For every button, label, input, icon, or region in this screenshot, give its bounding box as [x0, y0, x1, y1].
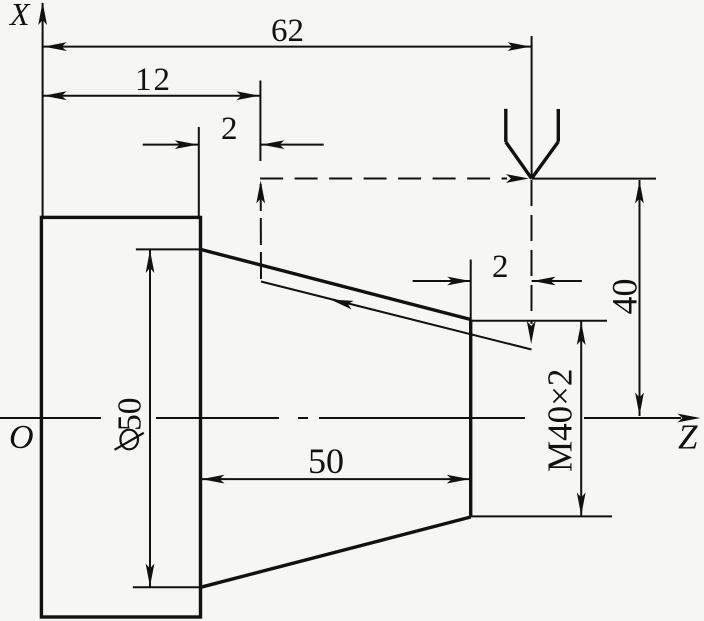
dimension phi50 line — [149, 250, 151, 587]
50 right arrow (points right) — [447, 475, 470, 484]
svg-text:2: 2 — [492, 249, 509, 285]
tool right vertical — [557, 109, 560, 142]
thread path thin slant line — [261, 282, 532, 350]
thread path arrow (points up-left along line) — [329, 295, 353, 309]
left 2 dim right arrow (points left) — [261, 140, 284, 149]
40 bottom arrow (down) — [635, 393, 644, 416]
svg-text:2: 2 — [221, 111, 238, 147]
phi symbol circle of phi50 — [120, 430, 138, 450]
Z axis arrow (right) — [678, 414, 701, 423]
12 right arrow — [236, 91, 259, 100]
taper bottom edge — [201, 517, 471, 587]
centerline segment 3 — [319, 417, 525, 419]
dimension M40x2 line — [580, 322, 582, 517]
62 right arrow — [508, 42, 531, 51]
dimension 12 line — [43, 95, 261, 97]
svg-text:40: 40 — [605, 279, 645, 315]
extension line x=260 for dims 12 and 2 — [259, 81, 261, 162]
small end face — [469, 320, 472, 518]
12 left arrow — [44, 91, 67, 100]
rapid path right arrow at tool tip — [506, 174, 529, 183]
50 left arrow (points left) — [202, 475, 225, 484]
tool right slant — [532, 142, 559, 179]
extension line x=198.8 for left dim 2 — [198, 127, 200, 216]
left 2 dim left arrow (points right) — [175, 140, 198, 149]
workpiece and tool: thick lines — [41, 109, 558, 617]
phi50 top extension line — [136, 248, 201, 250]
taper top edge — [201, 249, 471, 319]
rapid path up arrow at x=260.7 — [256, 181, 265, 204]
M40 bottom arrow (down) — [577, 493, 586, 516]
right 2 dim right arrow (points left) — [533, 277, 556, 286]
dimension 2 (right) line left segment — [413, 280, 471, 282]
40 top arrow (up) — [635, 181, 644, 204]
svg-text:12: 12 — [135, 62, 172, 98]
phi50 bottom arrow (down) — [146, 564, 155, 587]
dimension 2 (right) line right segment — [532, 280, 582, 282]
M40 bottom extension line — [471, 515, 612, 517]
dimension 2 (left) line right segment — [260, 144, 323, 146]
right 2 dim left arrow (points right) — [447, 277, 470, 286]
X axis line — [42, 3, 44, 217]
phi50 top arrow (up) — [146, 250, 155, 273]
X axis arrow (up) — [38, 2, 47, 25]
dimension 50 line — [201, 478, 471, 480]
M40 top extension line — [471, 320, 607, 322]
62 left arrow — [44, 42, 67, 51]
centerline short dash — [298, 417, 308, 419]
40 top extension line (from tool tip level) — [532, 178, 656, 180]
centerline segment 2 — [156, 417, 279, 419]
extension line x=470.7 for right dim 2 — [470, 260, 472, 320]
rapid path dashed horizontal at y=178.5 — [260, 178, 507, 180]
dimension 2 (left) line left segment — [143, 144, 199, 146]
svg-text:62: 62 — [271, 13, 304, 49]
svg-text:M40×2: M40×2 — [541, 369, 580, 472]
infeed dashed vertical at x=531.5 — [531, 180, 533, 324]
dimension 40 line — [639, 180, 641, 416]
M40 top arrow (up) — [577, 322, 586, 345]
rapid path dashed vertical at x=260.7 — [260, 184, 262, 282]
Z axis / centerline segment 1 — [0, 417, 101, 419]
svg-text:50: 50 — [112, 398, 149, 432]
phi50 bottom extension line — [133, 586, 202, 588]
centerline segment 4 (to Z arrow) — [584, 417, 681, 419]
svg-text:50: 50 — [308, 441, 344, 481]
infeed down arrow at x=531.5 — [527, 321, 536, 344]
tool left slant — [506, 142, 532, 179]
phi symbol slash of phi50 — [115, 433, 144, 450]
svg-text:Z: Z — [678, 418, 698, 457]
svg-text:O: O — [9, 419, 34, 456]
tool left vertical — [504, 109, 507, 142]
workpiece flange rectangle — [41, 217, 200, 617]
extension line x=531.6 (from 62 dim through tool tip) — [531, 36, 533, 179]
dimension 62 line — [43, 46, 532, 48]
svg-text:X: X — [8, 0, 31, 32]
